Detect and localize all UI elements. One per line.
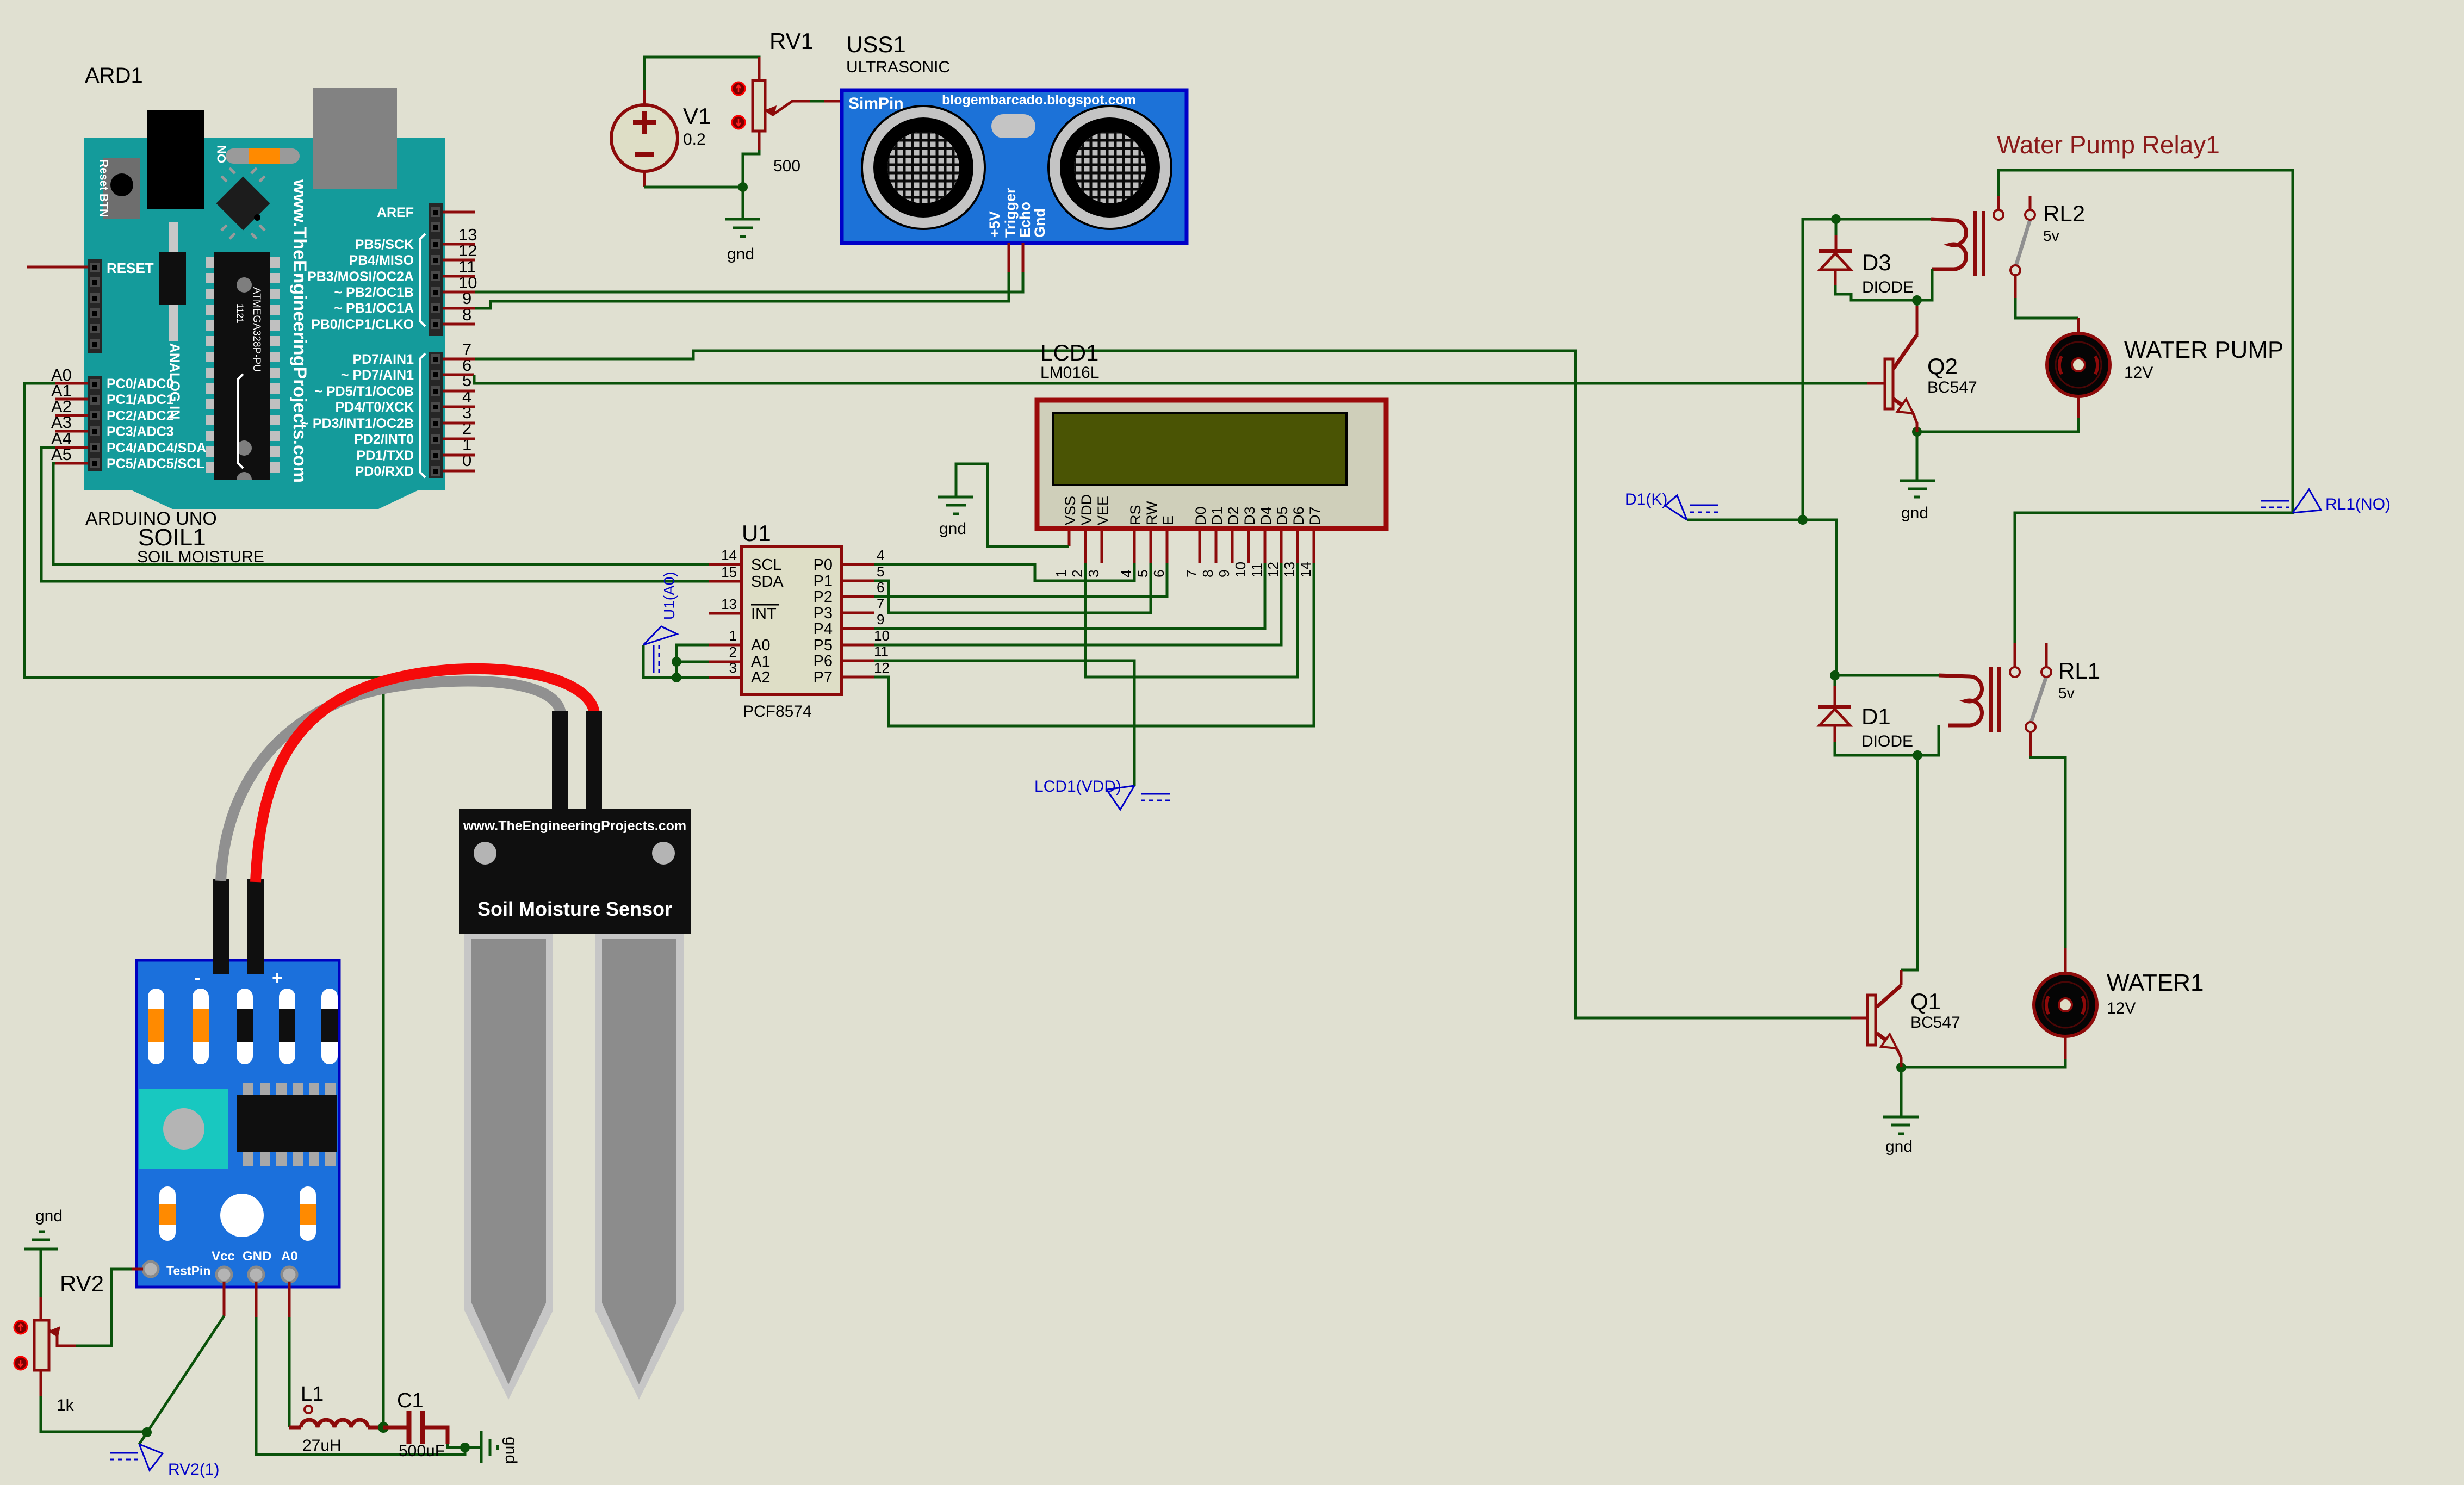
svg-text:14: 14: [1298, 562, 1314, 577]
soil module SOIL1 board: [136, 960, 339, 1287]
svg-text:PB5/SCK: PB5/SCK: [355, 237, 414, 252]
LCD VSS to gnd wire: [956, 464, 1069, 546]
RL2 coil bottom wire to collector junction: [1917, 269, 1932, 300]
svg-text:D5: D5: [1274, 506, 1290, 525]
svg-text:U1(A0): U1(A0): [661, 571, 678, 620]
V1 battery: [611, 90, 711, 187]
analog pin header: [88, 376, 102, 471]
terminal U1(A0): [643, 626, 677, 673]
wire pin6 to Q2 base (long): [474, 375, 1867, 383]
svg-text:P2: P2: [814, 588, 833, 606]
U1 PCF8574: [643, 520, 890, 720]
svg-text:WATER PUMP: WATER PUMP: [2124, 337, 2283, 363]
arduino board body: [84, 138, 445, 509]
svg-text:gnd: gnd: [939, 520, 966, 538]
reset button: [103, 158, 140, 219]
svg-text:~ PB2/OC1B: ~ PB2/OC1B: [334, 285, 414, 300]
A0-A5 labels: [51, 365, 72, 464]
svg-text:9: 9: [877, 611, 884, 627]
wire P6 to LCD1(VDD) terminal: [874, 661, 1134, 786]
svg-text:15: 15: [721, 564, 737, 580]
wire RV2 bottom to junction: [40, 1370, 42, 1396]
svg-text:-: -: [194, 968, 200, 989]
diode D1: [1818, 670, 1913, 750]
WATER1 bottom wire to Q1 emitter: [1901, 1059, 2065, 1067]
svg-text:4: 4: [877, 547, 884, 563]
svg-text:6: 6: [1151, 570, 1167, 577]
svg-text:GND: GND: [243, 1249, 271, 1264]
U1 pin stubs right: [841, 563, 874, 566]
svg-text:~ PB1/OC1A: ~ PB1/OC1A: [334, 301, 414, 316]
svg-text:PD2/INT0: PD2/INT0: [354, 432, 414, 447]
svg-text:PCF8574: PCF8574: [743, 703, 812, 720]
smd chip diamond: [216, 177, 270, 231]
LCD pin names rotated: [1062, 494, 1323, 525]
relay RL2 coil: [1932, 211, 1983, 276]
svg-text:D1(K): D1(K): [1625, 490, 1667, 508]
ground Q2: [1916, 432, 1919, 481]
RV1 potentiometer: [732, 28, 814, 175]
digital header upper: [429, 203, 443, 336]
wire C1 to gnd: [448, 1444, 481, 1447]
water pump bottom wire to Q2 emitter: [1917, 418, 2078, 432]
pin number labels right: [458, 225, 477, 470]
power jack: [147, 110, 204, 209]
wire Vcc pad diagonal to RV2(1) terminal: [223, 1282, 226, 1316]
svg-text:DIODE: DIODE: [1861, 732, 1913, 750]
wire P2 to E: [874, 563, 1167, 597]
diode D3: [1819, 219, 1914, 296]
svg-text:D2: D2: [1225, 506, 1242, 525]
svg-text:RW: RW: [1144, 501, 1160, 525]
U1 A0 A1 A2 wires to terminal: [676, 645, 709, 678]
svg-text:PC1/ADC1: PC1/ADC1: [107, 392, 174, 407]
wire RV1 wiper to USS1 SimPin: [810, 100, 824, 103]
digital header lower: [429, 352, 443, 478]
svg-text:~ PB3/MOSI/OC2A: ~ PB3/MOSI/OC2A: [296, 269, 414, 284]
svg-text:P1: P1: [814, 573, 833, 590]
svg-text:P4: P4: [814, 620, 833, 638]
USS1 pin stubs: [1008, 243, 1010, 272]
svg-text:~ PD3/INT1/OC2B: ~ PD3/INT1/OC2B: [301, 416, 414, 431]
svg-text:P3: P3: [814, 605, 833, 622]
left brace analog: [238, 374, 243, 468]
svg-text:13: 13: [721, 596, 737, 612]
svg-text:1k: 1k: [57, 1396, 75, 1414]
svg-text:BC547: BC547: [1910, 1014, 1960, 1032]
wire P5 to D5: [874, 563, 1281, 645]
svg-text:9: 9: [1216, 570, 1232, 577]
svg-text:3: 3: [1085, 570, 1102, 577]
LCD1 LM016L: [1037, 340, 1386, 577]
supply vertical from D1(K) rail to Q2 section: [1803, 219, 1931, 520]
wire pin7 to Q1 base (long): [475, 351, 1851, 1018]
svg-text:1121: 1121: [235, 303, 245, 324]
svg-text:D1: D1: [1861, 704, 1891, 729]
svg-text:PD7/AIN1: PD7/AIN1: [352, 352, 414, 367]
wire A5 to U1 SCL: [53, 463, 709, 564]
V1 top wire to RV1: [644, 57, 759, 90]
motor WATER PUMP: [2047, 318, 2283, 418]
USS1 ultrasonic sensor board: [842, 32, 1187, 272]
svg-text:RL1(NO): RL1(NO): [2325, 495, 2391, 513]
svg-text:Vcc: Vcc: [212, 1249, 235, 1264]
left transducer: [862, 106, 985, 229]
svg-text:PC3/ADC3: PC3/ADC3: [107, 424, 174, 439]
svg-text:Soil Moisture Sensor: Soil Moisture Sensor: [477, 898, 672, 920]
U1 pin stubs left: [709, 563, 742, 566]
svg-text:gnd: gnd: [1885, 1138, 1913, 1155]
V1 bottom wire to gnd junction: [644, 186, 743, 189]
svg-text:TestPin: TestPin: [166, 1264, 210, 1278]
svg-text:PC5/ADC5/SCL: PC5/ADC5/SCL: [107, 456, 205, 471]
svg-text:1: 1: [1053, 570, 1069, 577]
svg-text:P6: P6: [814, 653, 833, 670]
D1 anode wire to Q1 collector junction: [1835, 742, 1917, 755]
svg-text:BC547: BC547: [1927, 378, 1977, 396]
svg-text:Gnd: Gnd: [1032, 208, 1048, 238]
Arduino ARD1: [84, 64, 445, 566]
D1(K) rail: [1687, 520, 1836, 675]
ground Q1: [1900, 1067, 1903, 1117]
red cable to sensor: [256, 669, 594, 882]
wire pin10 to USS1 Echo: [475, 272, 1023, 292]
svg-text:D1: D1: [1209, 506, 1225, 525]
power LED: [226, 148, 300, 164]
svg-text:8: 8: [1200, 570, 1216, 577]
terminal D1(K): [1665, 495, 1718, 520]
D3 anode wire to Q2 collector junction: [1835, 285, 1917, 300]
svg-text:E: E: [1160, 515, 1176, 525]
right brace PD: [420, 353, 425, 477]
sensor prongs: [464, 934, 553, 1400]
svg-text:4: 4: [1118, 570, 1134, 577]
svg-text:AREF: AREF: [377, 205, 414, 220]
svg-text:12: 12: [1265, 562, 1281, 577]
relay RL1 switch: [2010, 643, 2100, 756]
svg-text:Q1: Q1: [1910, 989, 1941, 1014]
reset pin header: [88, 259, 102, 353]
svg-text:Q2: Q2: [1927, 353, 1958, 379]
svg-text:RS: RS: [1127, 505, 1144, 525]
wire P7 to D7: [874, 563, 1314, 726]
ground symbol V1: [725, 219, 760, 237]
right brace PB: [420, 234, 425, 326]
junction dot V1/RV1 gnd: [738, 182, 748, 192]
svg-text:www.TheEngineeringProjects.com: www.TheEngineeringProjects.com: [463, 818, 686, 834]
svg-text:14: 14: [721, 547, 737, 563]
teal sensor pad: [139, 1089, 228, 1169]
RV1 bottom wire to gnd junction: [743, 150, 759, 219]
wire A0 pad down to L1: [288, 1282, 291, 1317]
svg-text:Echo: Echo: [1017, 202, 1033, 238]
right transducer: [1048, 106, 1171, 229]
svg-text:P5: P5: [814, 637, 833, 654]
svg-text:www.TheEngineeringProjects.com: www.TheEngineeringProjects.com: [289, 179, 310, 483]
svg-text:gnd: gnd: [502, 1437, 520, 1464]
svg-text:VEE: VEE: [1095, 496, 1111, 525]
svg-text:~ PD7/AIN1: ~ PD7/AIN1: [341, 368, 414, 383]
terminal LCD1(VDD): [1107, 786, 1170, 810]
svg-text:U1: U1: [742, 520, 771, 546]
svg-text:500: 500: [773, 157, 800, 175]
svg-text:5v: 5v: [2043, 227, 2059, 244]
svg-text:10: 10: [1232, 562, 1249, 577]
bottom parts: [220, 1194, 264, 1237]
svg-text:D0: D0: [1193, 506, 1209, 525]
svg-text:D3: D3: [1242, 506, 1258, 525]
svg-text:500uF: 500uF: [399, 1442, 445, 1460]
svg-text:LM016L: LM016L: [1040, 364, 1099, 382]
wire GND pad down to gnd rail: [255, 1282, 258, 1317]
svg-text:PC2/ADC2: PC2/ADC2: [107, 408, 174, 424]
svg-text:RESET: RESET: [107, 260, 154, 276]
relay RL1 coil: [1835, 667, 1999, 755]
digital pin stubs lower: [443, 358, 475, 361]
wire A0 to soil L1 junction: [24, 383, 383, 1427]
pads: [143, 1262, 158, 1277]
svg-text:PD1/TXD: PD1/TXD: [356, 448, 414, 463]
ground symbol LCD: [938, 497, 973, 514]
svg-text:ATMEGA328P-PU: ATMEGA328P-PU: [251, 287, 262, 372]
RL2 switch to water pump wire: [2015, 298, 2078, 318]
svg-text:gnd: gnd: [727, 245, 754, 263]
ATMEGA328 DIP: [206, 257, 280, 473]
svg-text:LCD1(VDD): LCD1(VDD): [1034, 778, 1121, 796]
ground symbol C1 (rotated right): [481, 1431, 498, 1463]
svg-text:C1: C1: [397, 1389, 424, 1412]
svg-text:D4: D4: [1258, 506, 1274, 525]
svg-text:13: 13: [1281, 562, 1298, 577]
junction dot D3 top: [1831, 214, 1841, 224]
usb connector: [313, 88, 397, 189]
svg-text:LCD1: LCD1: [1040, 340, 1098, 365]
svg-text:SOIL1: SOIL1: [138, 524, 206, 551]
svg-text:USS1: USS1: [846, 32, 906, 57]
reset stub wire: [27, 266, 88, 269]
center pill: [991, 114, 1035, 138]
svg-text:RL2: RL2: [2043, 201, 2085, 226]
svg-text:RV2: RV2: [60, 1271, 104, 1296]
wire RV2 wiper to TestPin: [76, 1269, 132, 1346]
svg-text:RL1: RL1: [2058, 658, 2100, 684]
svg-text:PB0/ICP1/CLKO: PB0/ICP1/CLKO: [311, 317, 414, 332]
svg-text:12V: 12V: [2107, 999, 2136, 1017]
wire A4 to U1 SDA: [41, 448, 709, 581]
svg-text:PC4/ADC4/SDA: PC4/ADC4/SDA: [107, 440, 206, 456]
wire pin9 to USS1 Trigger: [475, 272, 1009, 308]
svg-text:PD0/RXD: PD0/RXD: [355, 464, 414, 479]
LCD pin stubs: [1068, 531, 1071, 546]
svg-text:gnd: gnd: [1901, 504, 1928, 522]
svg-text:27uH: 27uH: [302, 1437, 342, 1455]
svg-text:PB4/MISO: PB4/MISO: [349, 253, 414, 268]
terminal RV2(1): [110, 1444, 163, 1470]
soil moisture sensor head: [459, 711, 691, 934]
transistor Q1: [1851, 755, 1960, 1067]
analog pin stubs: [55, 382, 88, 385]
RL1 switch to WATER1 wire: [2031, 756, 2065, 948]
svg-text:V1: V1: [683, 103, 711, 129]
svg-text:A0: A0: [751, 637, 770, 654]
svg-text:D3: D3: [1862, 250, 1891, 275]
transistor Q2: [1867, 300, 1977, 432]
wire gnd to RV2: [40, 1249, 42, 1297]
svg-text:D6: D6: [1290, 506, 1307, 525]
svg-text:0.2: 0.2: [683, 131, 706, 148]
svg-text:PD4/T0/XCK: PD4/T0/XCK: [336, 400, 414, 415]
svg-text:SDA: SDA: [751, 573, 784, 591]
svg-text:Water Pump Relay1: Water Pump Relay1: [1997, 131, 2220, 159]
wire P4 to D4: [874, 563, 1265, 629]
svg-text:Trigger: Trigger: [1002, 188, 1019, 238]
svg-text:RV2(1): RV2(1): [168, 1461, 219, 1478]
svg-text:Reset BTN: Reset BTN: [97, 159, 110, 217]
svg-text:0: 0: [462, 451, 471, 470]
svg-text:VDD: VDD: [1078, 494, 1095, 525]
wire P0 to RS: [874, 563, 1134, 581]
svg-text:1: 1: [729, 627, 737, 644]
svg-text:ULTRASONIC: ULTRASONIC: [846, 58, 950, 76]
gray cable to sensor: [221, 681, 561, 881]
RL2 switch: [1994, 196, 2085, 298]
relay supply box wire top: [1998, 170, 2293, 643]
RV2 potentiometer: [14, 1271, 104, 1414]
U1 inside pin names: [751, 556, 833, 686]
svg-text:SimPin: SimPin: [848, 95, 904, 113]
svg-text:A1: A1: [751, 653, 770, 670]
svg-text:RV1: RV1: [769, 28, 814, 54]
svg-text:PC0/ADC0: PC0/ADC0: [107, 376, 174, 392]
wire VDD to D6: [1085, 563, 1298, 677]
svg-text:WATER1: WATER1: [2107, 970, 2204, 996]
svg-text:gnd: gnd: [35, 1207, 63, 1225]
soic chip: [243, 1083, 336, 1166]
svg-text:~ PD5/T1/OC0B: ~ PD5/T1/OC0B: [314, 384, 414, 399]
LCD pin numbers rotated: [1053, 562, 1314, 577]
svg-text:+5V: +5V: [986, 211, 1003, 238]
U1 pin numbers: [721, 547, 890, 676]
digital pin stubs upper: [443, 211, 475, 214]
wire P1 to RW: [874, 563, 1151, 613]
svg-text:5: 5: [1134, 570, 1151, 577]
svg-text:DIODE: DIODE: [1862, 278, 1914, 296]
svg-text:VSS: VSS: [1062, 496, 1078, 525]
svg-text:P0: P0: [814, 556, 833, 574]
svg-text:11: 11: [1249, 563, 1265, 577]
motor WATER1: [2034, 948, 2204, 1059]
svg-text:A2: A2: [751, 669, 770, 686]
svg-text:7: 7: [1183, 570, 1200, 577]
svg-text:SCL: SCL: [751, 556, 781, 574]
junction dot L1/C1/A0: [378, 1422, 389, 1433]
terminal RL1(NO): [2261, 489, 2321, 513]
svg-text:12V: 12V: [2124, 364, 2153, 382]
svg-text:D7: D7: [1307, 506, 1323, 525]
svg-text:2: 2: [1069, 570, 1085, 577]
svg-text:5v: 5v: [2058, 685, 2075, 701]
svg-text:+: +: [272, 968, 283, 989]
crystal/cap: [169, 222, 178, 252]
svg-text:A0: A0: [281, 1249, 298, 1264]
top pills: [148, 989, 338, 1064]
soil module cable pins: [213, 879, 229, 974]
svg-text:L1: L1: [301, 1383, 324, 1406]
svg-text:P7: P7: [814, 669, 833, 686]
svg-text:ARD1: ARD1: [85, 64, 143, 88]
svg-text:INT: INT: [751, 605, 777, 623]
